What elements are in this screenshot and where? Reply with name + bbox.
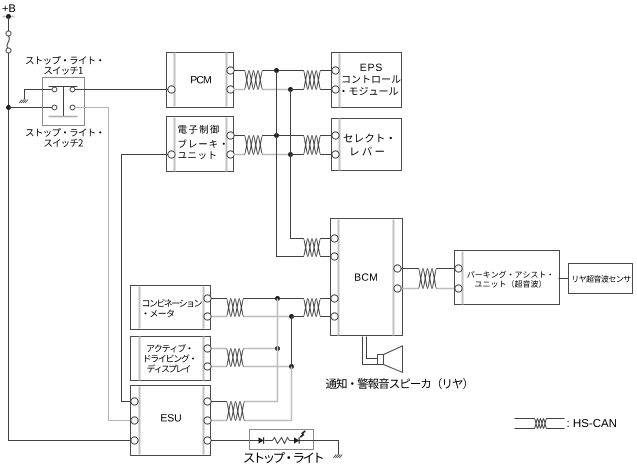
terminal EBCU left	[168, 151, 175, 158]
terminal EPS H	[332, 67, 339, 74]
legend wire right	[547, 418, 565, 420]
wire into diode	[250, 440, 259, 442]
parking label line1	[467, 271, 551, 278]
twisted pair meter	[227, 299, 244, 317]
wire EBCU L to bus	[263, 154, 291, 156]
meter strip right	[203, 287, 205, 329]
terminal SW2 left	[52, 105, 57, 110]
twisted pair BCM upper	[304, 239, 321, 257]
sensor label	[573, 275, 631, 282]
label stop-light-switch1 line1	[26, 56, 101, 65]
terminal BCM 2	[331, 253, 338, 260]
ESU box	[131, 386, 211, 456]
wire bus to BCM4	[292, 316, 304, 318]
twisted pair ESU	[227, 402, 245, 421]
terminal meter H	[204, 295, 211, 302]
wire SW1 to ground	[25, 90, 52, 100]
wire CAN-L bus upper	[291, 90, 304, 239]
terminal ESU L3	[131, 437, 138, 444]
junction display L	[289, 364, 294, 369]
BCM strip left	[338, 220, 340, 336]
twisted pair display	[227, 349, 244, 367]
wire meter L stub	[212, 316, 227, 318]
EBCU strip left	[174, 118, 176, 172]
wire ESU to stoplight	[212, 440, 250, 442]
terminal select H	[332, 132, 339, 139]
EPS box	[332, 53, 402, 108]
display strip left	[139, 337, 141, 381]
BCM box	[331, 219, 403, 336]
twisted pair EBCU	[245, 136, 263, 155]
terminal PCM left	[168, 86, 175, 93]
terminal BCM 3	[331, 295, 338, 302]
wire stoplight to ground	[300, 441, 339, 455]
node +B rail stub	[3, 16, 15, 18]
switch actuator link	[63, 87, 65, 117]
sensor box	[569, 264, 633, 294]
LED D2	[294, 437, 299, 443]
BCM label	[355, 273, 377, 280]
wire CAN-L bus lower	[245, 367, 292, 421]
wire BCM L stub right	[402, 288, 419, 290]
wire select H stub	[321, 135, 332, 137]
wire display L stub	[212, 366, 227, 368]
junction +B / switch2	[6, 105, 11, 110]
wire parking H stub	[437, 268, 455, 270]
wire meter L to bus	[244, 316, 292, 318]
ground G2	[339, 455, 342, 458]
select label line2	[351, 147, 384, 156]
twisted pair select lever	[304, 136, 321, 155]
display box	[131, 337, 211, 381]
LED flash arrow	[300, 431, 305, 437]
wire meter H to bus	[244, 298, 304, 300]
terminal PCM CAN-L	[227, 86, 234, 93]
wire BCM t1 stub	[321, 238, 331, 240]
parking strip	[462, 252, 464, 305]
wire fuse to bottom rail	[9, 53, 132, 441]
EBCU strip right	[226, 118, 228, 172]
terminal BCM out H	[394, 265, 401, 272]
wire bus to EPS L	[291, 89, 304, 91]
wire bus to select L	[291, 154, 304, 156]
wire display H stub	[212, 348, 227, 350]
twisted pair parking	[419, 269, 437, 289]
junction meter L	[289, 314, 294, 319]
EPS label line3	[342, 87, 398, 95]
wire meter H stub	[212, 298, 227, 300]
speaker SP1	[378, 355, 384, 365]
wire ESU L stub	[212, 420, 227, 422]
twisted pair BCM lower	[304, 299, 321, 317]
meter box	[131, 286, 211, 330]
terminal SW1 left	[52, 87, 57, 92]
terminal ESU L1	[131, 398, 138, 405]
terminal EBCU CAN-L	[227, 151, 234, 158]
switch SW2 contact bar	[49, 116, 78, 118]
wire EPS H stub	[321, 70, 332, 72]
label stop light	[244, 452, 323, 463]
wire BCM H stub right	[402, 268, 419, 270]
label speaker	[326, 378, 466, 389]
EPS label line2	[343, 75, 401, 83]
label stop-light-switch1 line2	[44, 67, 82, 75]
wire +B down to fuse	[8, 17, 10, 32]
wire EBCU H stub	[234, 135, 245, 137]
parking box	[455, 251, 560, 305]
display label line2	[145, 354, 194, 362]
EPS strip	[339, 54, 341, 108]
display strip right	[203, 337, 205, 381]
legend wire left	[515, 418, 535, 420]
ESU strip left	[139, 387, 141, 455]
wire CAN-H bus upper	[277, 71, 304, 257]
terminal display L	[204, 363, 211, 370]
twisted pair PCM	[245, 71, 263, 90]
wire ESU H stub	[212, 401, 227, 403]
switch box	[43, 78, 85, 126]
wire EPS L stub	[321, 89, 332, 91]
PCM strip left	[174, 53, 176, 107]
label stop-light-switch2 line1	[26, 128, 101, 137]
wire PCM L to bus	[263, 89, 291, 91]
twisted pair EPS	[304, 71, 321, 90]
wire PCM H to bus	[263, 70, 304, 72]
ESU label	[161, 414, 181, 421]
diode D1	[259, 437, 264, 443]
PCM label	[191, 76, 211, 83]
select strip	[339, 119, 341, 171]
EBCU box	[167, 117, 234, 172]
wire SW2 to ESU	[75, 108, 132, 421]
select lever box	[332, 119, 402, 171]
wire +B to switch2	[9, 107, 52, 109]
meter strip left	[139, 287, 141, 329]
display label line1	[147, 344, 190, 352]
wire BCM3 stub	[321, 298, 331, 300]
ESU strip right	[203, 387, 205, 455]
wire CAN-H bus lower	[245, 299, 278, 402]
terminal PCM CAN-H	[227, 67, 234, 74]
wire SW1 to PCM	[75, 89, 168, 91]
wire EBCU L stub	[234, 154, 245, 156]
terminal ESU R2	[204, 417, 211, 424]
label HS-CAN	[568, 419, 616, 427]
PCM strip right	[226, 53, 228, 107]
terminal select L	[332, 151, 339, 158]
terminal ESU R1	[204, 398, 211, 405]
switch SW1 contact bar	[49, 86, 78, 88]
EBCU label line2	[179, 139, 225, 148]
label stop-light-switch2 line2	[44, 139, 83, 147]
PCM box	[167, 53, 234, 108]
wire EBCU to ESU	[122, 155, 168, 402]
wire parking L stub	[437, 288, 455, 290]
wire display L to bus	[244, 366, 292, 368]
resistor R1	[273, 438, 290, 444]
wire select L stub	[321, 154, 332, 156]
wire PCM L stub	[234, 89, 245, 91]
wire BCM4 stub	[321, 316, 331, 318]
wire parking to sensor	[559, 278, 569, 280]
wire BCM t2 stub	[321, 256, 331, 258]
wire diode to resistor	[265, 440, 273, 442]
terminal SW2 right	[70, 105, 75, 110]
legend twisted pair	[535, 419, 547, 429]
terminal SW1 right	[70, 87, 75, 92]
terminal parking H	[455, 265, 462, 272]
junction CAN-H row B	[274, 133, 279, 138]
BCM strip right	[393, 220, 395, 336]
junction display H	[275, 346, 280, 351]
terminal parking L	[455, 285, 462, 292]
terminal ESU L2	[131, 417, 138, 424]
EPS label line1	[361, 64, 382, 71]
wire display H to bus	[244, 348, 278, 350]
meter label line2	[145, 310, 174, 318]
EBCU label line1	[178, 125, 219, 134]
wire resistor to LED	[290, 440, 295, 442]
fuse F1	[6, 31, 11, 36]
stoplight box	[250, 430, 314, 450]
junction CAN-L row B	[288, 152, 293, 157]
display label line3	[147, 364, 190, 372]
wire CAN-L bus lower mid	[291, 317, 293, 367]
meter label line1	[143, 299, 202, 307]
wire PCM H stub	[234, 70, 245, 72]
terminal BCM 1	[331, 235, 338, 242]
EBCU label line3	[178, 151, 215, 159]
terminal meter L	[204, 313, 211, 320]
terminal display H	[204, 345, 211, 352]
terminal ESU R3	[204, 437, 211, 444]
select label line1	[344, 134, 392, 143]
terminal EBCU CAN-H	[227, 132, 234, 139]
terminal EPS L	[332, 86, 339, 93]
junction meter H	[275, 296, 280, 301]
wire EBCU H to bus	[263, 135, 304, 137]
junction CAN-L row A	[288, 87, 293, 92]
ground G1	[25, 100, 28, 103]
parking label line2	[475, 280, 541, 288]
terminal BCM out L	[394, 285, 401, 292]
junction CAN-H row A	[274, 68, 279, 73]
terminal BCM 4	[331, 313, 338, 320]
wire speaker pair	[363, 337, 378, 365]
node +B label	[3, 4, 16, 12]
junction +B	[6, 14, 11, 19]
